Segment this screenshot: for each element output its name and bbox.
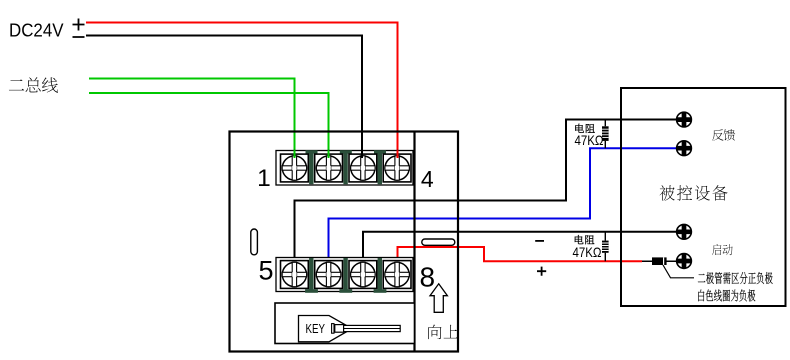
terminal start- xyxy=(677,224,692,239)
slot right xyxy=(422,239,455,245)
svg-text:47KΩ: 47KΩ xyxy=(573,245,602,260)
wire terminal 6 to feedback- blue xyxy=(329,148,677,257)
label minus xyxy=(535,240,544,242)
terminal 1 xyxy=(281,154,309,182)
module outline xyxy=(230,132,459,352)
svg-text:KEY: KEY xyxy=(306,322,326,336)
label 启动 xyxy=(712,244,721,255)
key collar xyxy=(332,324,334,334)
terminal 3 xyxy=(349,154,377,182)
resistor R1 body xyxy=(602,126,609,141)
terminal 4 xyxy=(383,154,411,182)
arrow up xyxy=(430,284,447,313)
terminal 2 xyxy=(315,154,343,182)
wire bus line 1 green to terminal 1 xyxy=(89,79,295,160)
label 被控设备 xyxy=(660,185,675,200)
svg-text:1: 1 xyxy=(257,165,271,192)
label 二总线 xyxy=(9,79,24,90)
clamp screw C xyxy=(374,150,386,184)
wire stub into terminal 1 xyxy=(294,150,296,158)
terminal 8 xyxy=(383,261,411,289)
label plus xyxy=(537,267,546,276)
wire stub into terminal 3 xyxy=(361,150,363,158)
clamp screw B xyxy=(340,150,352,184)
note 二极管需区分正负极 xyxy=(698,274,705,282)
svg-text:DC24V: DC24V xyxy=(9,20,64,41)
leader line to diode note xyxy=(663,265,694,278)
resistor R1 47Kohm leads xyxy=(604,120,606,149)
key block xyxy=(335,325,344,333)
resistor R2 body xyxy=(602,241,609,253)
terminal 5 xyxy=(281,261,309,289)
clamp screw E xyxy=(339,258,352,293)
terminal feedback- xyxy=(677,141,692,156)
terminal strip bottom xyxy=(276,258,413,292)
controlled device box xyxy=(621,88,786,306)
terminal start+ xyxy=(677,254,692,269)
wire terminal 5 to feedback+ black xyxy=(295,120,677,258)
resistor R2 leads xyxy=(604,232,606,261)
note 白色线圈为负极 xyxy=(698,290,704,302)
diode D1 body xyxy=(652,257,667,265)
svg-text:47KΩ: 47KΩ xyxy=(575,133,604,148)
terminal 6 xyxy=(315,261,343,289)
key switch head xyxy=(299,316,353,342)
terminal 7 xyxy=(349,261,377,289)
terminal strip top xyxy=(276,151,413,186)
clamp screw D xyxy=(305,258,318,293)
label 电阻 R1 xyxy=(575,124,583,133)
diode D1 lead xyxy=(642,260,677,262)
wire terminal 8 to start+ red xyxy=(398,247,643,261)
wire DC24V+ red to terminal 4 xyxy=(86,23,398,160)
wire bus line 2 green to terminal 2 xyxy=(89,93,329,159)
key shaft xyxy=(344,325,401,331)
wire terminal 7 to start- black xyxy=(363,232,677,258)
terminal feedback+ xyxy=(677,112,692,127)
label 电阻 R2 xyxy=(575,235,583,244)
svg-text:5: 5 xyxy=(258,256,273,286)
wire stub into terminal 2 xyxy=(328,150,330,158)
label 反馈 xyxy=(712,129,724,140)
polarity symbol plus-minus xyxy=(73,19,85,38)
module inner partition xyxy=(413,132,415,352)
wire stub into terminal 4 xyxy=(397,150,399,158)
clamp screw A xyxy=(306,150,318,184)
wire DC24V- black to terminal 3 xyxy=(86,36,362,160)
svg-text:8: 8 xyxy=(420,262,436,293)
label 向上 xyxy=(428,325,441,339)
key compartment xyxy=(275,303,415,344)
slot left xyxy=(251,229,258,255)
svg-text:4: 4 xyxy=(421,166,434,192)
clamp screw F xyxy=(374,258,387,293)
